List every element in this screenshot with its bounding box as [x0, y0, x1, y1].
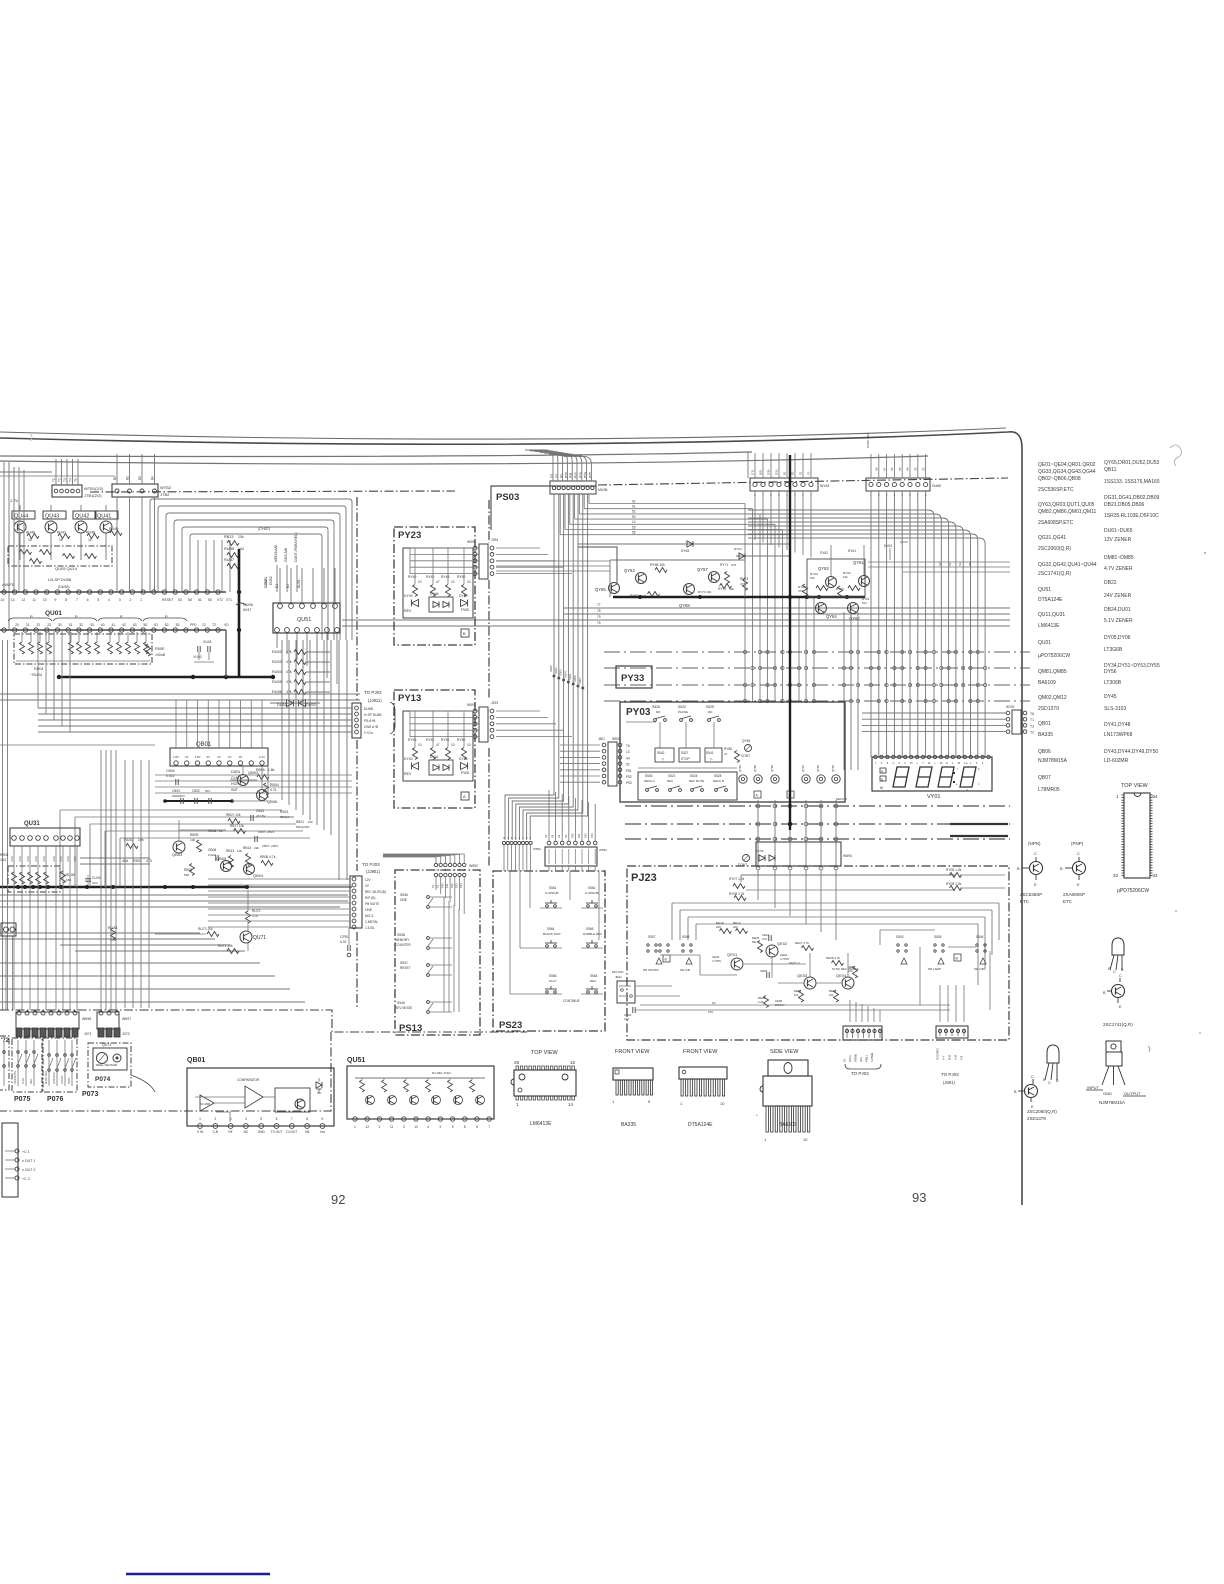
svg-text:684: 684 [66, 878, 71, 882]
wire inner loop verticals [281, 640, 283, 800]
svg-text:DY46: DY46 [430, 592, 439, 596]
svg-text:10k: 10k [829, 993, 834, 997]
wire leads to JJ901 [208, 878, 350, 880]
svg-text:11: 11 [390, 1125, 394, 1129]
svg-text:RU56: RU56 [272, 690, 282, 694]
transistor QE04 [842, 977, 854, 989]
svg-text:PY03: PY03 [626, 707, 651, 718]
svg-text:RUB7: RUB7 [224, 558, 234, 562]
transistor QY62 [848, 603, 859, 614]
capacitor CU06 [236, 603, 246, 605]
svg-text:REV: REV [404, 609, 412, 613]
svg-text:S1: S1 [431, 884, 435, 888]
svg-text:104: 104 [0, 858, 6, 862]
transistor QY65 [609, 583, 620, 594]
svg-text:2.1V: 2.1V [259, 755, 265, 759]
board outline PY23 [394, 527, 475, 645]
svg-text:QB01: QB01 [187, 1057, 205, 1064]
wire QU51 top leads [279, 568, 281, 603]
svg-text:T1: T1 [52, 478, 56, 482]
svg-text:W501: W501 [612, 737, 621, 741]
board label PY33 [616, 666, 652, 688]
svg-text:W594: W594 [843, 854, 852, 858]
bus heavy segments right [950, 823, 1008, 825]
svg-text:C: C [1034, 851, 1037, 856]
svg-text:31: 31 [69, 623, 73, 627]
blue mark line [126, 1573, 270, 1576]
svg-text:S564: S564 [590, 974, 598, 978]
wire loop rectangles [150, 499, 352, 640]
svg-text:15: 15 [570, 1060, 576, 1065]
svg-text:W593: W593 [599, 848, 607, 852]
marker B3 box [663, 955, 670, 962]
svg-text:C802: C802 [192, 789, 200, 793]
svg-text:CONT (PARA REC): CONT (PARA REC) [294, 532, 298, 562]
svg-text:RY70 10k: RY70 10k [698, 590, 712, 594]
svg-text:W592: W592 [533, 847, 541, 851]
wire PS03-board left dash outline [488, 500, 490, 543]
svg-text:T5: T5 [74, 478, 78, 482]
svg-text:RESET: RESET [400, 966, 411, 970]
diode DY50 [461, 600, 468, 607]
wire bundle V3 WU65 drops [870, 491, 872, 757]
wire PJ23 bottom rails [640, 1004, 950, 1006]
svg-text:W594: W594 [467, 540, 476, 544]
svg-text:H-SPDUB: H-SPDUB [545, 891, 559, 895]
svg-text:560(1/2W): 560(1/2W) [296, 825, 310, 829]
svg-text:40: 40 [101, 623, 105, 627]
svg-text:47k: 47k [286, 670, 292, 674]
svg-text:S505: S505 [934, 935, 942, 939]
resistor RY07 [741, 874, 955, 876]
svg-text:RU42: RU42 [124, 838, 134, 842]
wire WS92/WS93 into PS23 [503, 845, 505, 871]
svg-text:DB22: DB22 [1104, 580, 1117, 586]
svg-text:CE08: CE08 [775, 999, 782, 1003]
wire bottom connector drops [849, 1000, 851, 1022]
svg-text:x OUT 1: x OUT 1 [22, 1159, 35, 1163]
transistor QB06 [257, 790, 268, 801]
svg-text:100uB: 100uB [155, 653, 166, 657]
svg-text:77: 77 [597, 603, 601, 607]
svg-text:QY52: QY52 [801, 765, 805, 772]
package 2SC2060 TO-92 [1047, 1045, 1059, 1063]
svg-text:78: 78 [597, 609, 601, 613]
svg-text:10: 10 [414, 1125, 418, 1129]
svg-text:S306: S306 [573, 675, 577, 682]
svg-text:2SA608SP,ETC: 2SA608SP,ETC [1038, 520, 1074, 526]
svg-text:0V: 0V [206, 755, 210, 759]
wire thick vertical bus x790 [789, 455, 791, 830]
svg-text:QY64: QY64 [826, 614, 837, 619]
svg-text:MO-S: MO-S [365, 914, 373, 918]
diode DY44 [461, 763, 468, 770]
svg-text:BA6109: BA6109 [779, 1122, 797, 1128]
svg-text:E: E [1034, 882, 1037, 887]
svg-text:R503: R503 [133, 859, 142, 863]
svg-text:12: 12 [365, 1125, 369, 1129]
svg-text:V IN: V IN [197, 1130, 204, 1134]
svg-text:1: 1 [140, 598, 142, 602]
svg-text:DY49: DY49 [404, 594, 413, 598]
svg-text:1.5-B1: 1.5-B1 [365, 926, 375, 930]
svg-text:50: 50 [208, 598, 212, 602]
svg-text:NJM78M15A: NJM78M15A [1099, 1100, 1125, 1105]
svg-text:STOP: STOP [681, 757, 690, 761]
svg-text:TOP VIEW: TOP VIEW [531, 1050, 559, 1056]
svg-text:QY65,DR01,DU52,DU53: QY65,DR01,DU52,DU53 [1104, 460, 1160, 466]
svg-text:PLAY: PLAY [22, 1077, 25, 1084]
svg-text:SYNC REC ON/OFF: SYNC REC ON/OFF [832, 967, 859, 971]
svg-text:REV: REV [404, 772, 412, 776]
svg-text:COUNTER: COUNTER [395, 943, 411, 947]
node PY33 junctions [743, 650, 746, 653]
svg-text:DM81~DM85: DM81~DM85 [1104, 555, 1134, 561]
svg-text:S3: S3 [557, 834, 561, 838]
svg-text:S527: S527 [681, 751, 689, 755]
svg-text:S525: S525 [706, 705, 714, 709]
wire PS13 right bundle [443, 897, 445, 1012]
svg-text:J501: J501 [598, 737, 605, 741]
svg-text:QM82,QM86,QM01,QM11: QM82,QM86,QM01,QM11 [1038, 509, 1096, 515]
svg-text:47: 47 [724, 752, 728, 756]
svg-text:YU02: YU02 [193, 655, 202, 659]
transistor QB05 [221, 861, 232, 872]
svg-text:RU55: RU55 [272, 680, 282, 684]
connector WTB1/JTB1 [52, 485, 82, 497]
svg-text:QU01: QU01 [45, 610, 62, 617]
svg-text:µPD75206CW: µPD75206CW [1117, 888, 1149, 894]
svg-text:RB09: RB09 [190, 833, 198, 837]
svg-text:47k: 47k [286, 650, 292, 654]
transistor QU71 [240, 931, 252, 943]
svg-text:93: 93 [912, 1190, 926, 1205]
svg-text:QB03: QB03 [172, 852, 183, 857]
svg-text:QY64: QY64 [900, 540, 908, 544]
svg-text:FWD: FWD [461, 608, 470, 612]
svg-text:MIX MIC: MIX MIC [612, 970, 624, 974]
svg-text:10: 10 [451, 580, 455, 584]
connector WU98 [550, 481, 596, 494]
svg-text:C+Ou: C+Ou [364, 731, 373, 735]
svg-text:47k: 47k [286, 690, 292, 694]
transistor QY57 [709, 572, 720, 583]
svg-text:P074: P074 [95, 1076, 111, 1083]
svg-text:4.2V: 4.2V [42, 856, 46, 862]
svg-text:P22: P22 [450, 883, 454, 888]
svg-text:QB07: QB07 [1038, 775, 1051, 781]
transistor QB03 [173, 841, 185, 853]
capacitor CU04 [85, 878, 91, 880]
svg-text:QY61: QY61 [853, 560, 864, 565]
artifact pencil mark [1170, 445, 1182, 466]
board outline PY13 [394, 690, 475, 808]
svg-text:J071: J071 [84, 1032, 92, 1036]
resistor RY10 right [950, 886, 962, 891]
svg-text:T3: T3 [63, 478, 67, 482]
svg-text:QB06: QB06 [1038, 749, 1051, 755]
switch S541 [705, 748, 722, 762]
svg-text:4.2V: 4.2V [10, 856, 14, 862]
svg-text:TO PJ03: TO PJ03 [941, 1072, 959, 1077]
svg-text:(T1): (T1) [751, 470, 755, 475]
svg-text:WTB2: WTB2 [160, 485, 172, 490]
wire long risers x339-352 [338, 640, 340, 880]
svg-text:CB06: CB06 [208, 848, 216, 852]
svg-text:42: 42 [122, 623, 126, 627]
svg-text:R: R [881, 770, 883, 774]
svg-text:SYNC REC: SYNC REC [866, 432, 870, 448]
svg-text:PP0: PP0 [190, 623, 197, 627]
svg-text:6: 6 [87, 598, 89, 602]
svg-text:AF AMP: AF AMP [200, 1102, 210, 1106]
svg-text:56: 56 [632, 531, 636, 535]
wire center vertical bundle [505, 494, 554, 840]
svg-text:RB06: RB06 [256, 768, 265, 772]
svg-text:RB17 10k: RB17 10k [230, 824, 244, 828]
svg-text:9: 9 [440, 1125, 442, 1129]
svg-text:1SR35,RL103E,D5F10C: 1SR35,RL103E,D5F10C [1104, 513, 1159, 519]
svg-text:43: 43 [133, 623, 137, 627]
svg-text:S506: S506 [976, 935, 984, 939]
svg-text:LD-602MR: LD-602MR [1104, 758, 1129, 764]
svg-text:DY64: DY64 [734, 547, 742, 551]
resistor RY09 right [950, 873, 962, 878]
svg-text:DY45: DY45 [1104, 694, 1117, 700]
svg-text:INPUT: INPUT [1087, 1085, 1100, 1090]
resistor RU48 [87, 534, 99, 539]
svg-text:3: 3 [403, 1125, 405, 1129]
svg-text:XU01: XU01 [203, 640, 212, 644]
svg-text:S-PWM: S-PWM [870, 1052, 874, 1062]
svg-text:H-SPDUB: H-SPDUB [585, 891, 599, 895]
svg-text:QB02~QB06,QB08: QB02~QB06,QB08 [1038, 476, 1081, 482]
svg-text:2-METAL: 2-METAL [365, 920, 378, 924]
svg-text:GND: GND [258, 1130, 266, 1134]
svg-text:OSC/REC: OSC/REC [936, 1048, 940, 1060]
svg-text:QG32,QG42,QU41~QU44: QG32,QG42,QU41~QU44 [1038, 562, 1097, 568]
svg-text:INIT: INIT [231, 788, 239, 792]
wire PY23 internal [410, 547, 479, 549]
svg-text:LT306B: LT306B [1104, 680, 1122, 686]
transistor QU41 [95, 511, 118, 519]
svg-text:QB01: QB01 [196, 742, 212, 748]
svg-text:52: 52 [165, 623, 169, 627]
svg-text:S561: S561 [549, 886, 557, 890]
svg-text:+C 2: +C 2 [22, 1177, 30, 1181]
svg-text:RB08 4.7k: RB08 4.7k [260, 855, 276, 859]
svg-text:DY56: DY56 [756, 849, 764, 853]
svg-text:W597: W597 [122, 1017, 131, 1021]
svg-text:C: C [1048, 1081, 1051, 1085]
svg-text:DY43: DY43 [404, 757, 413, 761]
wire bundle V2b [843, 612, 845, 770]
svg-text:51: 51 [154, 623, 158, 627]
svg-text:DOLBY: DOLBY [61, 1075, 64, 1084]
svg-text:RB13: RB13 [226, 849, 234, 853]
svg-text:R1 RE1 4TkΩ: R1 RE1 4TkΩ [432, 1071, 451, 1075]
svg-text:(DU58): (DU58) [58, 585, 70, 589]
svg-text:NJM78M15A: NJM78M15A [1038, 758, 1068, 764]
svg-text:REV MODE: REV MODE [395, 1006, 412, 1010]
svg-text:REEL SENSOR: REEL SENSOR [96, 1063, 118, 1067]
svg-text:(JJ911): (JJ911) [368, 698, 382, 703]
transistor QY63 [636, 573, 647, 584]
svg-text:W592: W592 [469, 864, 478, 868]
svg-text:RU46: RU46 [26, 531, 35, 535]
connector TO PJ03 bottom-left [843, 1026, 882, 1040]
svg-text:S2: S2 [938, 562, 942, 566]
svg-text:(TK): (TK) [775, 469, 779, 475]
wire PY03 internals [638, 767, 737, 769]
svg-text:10: 10 [451, 743, 455, 747]
svg-text:Y-B: Y-B [960, 1056, 964, 1060]
svg-text:8: 8 [306, 1117, 308, 1121]
svg-text:CB04: CB04 [166, 769, 175, 773]
resistor RU47 [58, 534, 70, 539]
svg-text:(PNP): (PNP) [1071, 841, 1084, 846]
svg-text:NC: NC [244, 1130, 249, 1134]
svg-text:REC MUTE(B): REC MUTE(B) [365, 890, 386, 894]
diode DY46 box [429, 597, 453, 612]
svg-text:DT5A124E: DT5A124E [1038, 597, 1063, 603]
svg-text:XT1: XT1 [226, 598, 232, 602]
svg-text:T1: T1 [1030, 718, 1034, 722]
svg-text:x MUTE: x MUTE [2, 583, 15, 587]
svg-text:DY44: DY44 [459, 757, 468, 761]
svg-text:S537: S537 [400, 961, 408, 965]
svg-text:NF: NF [228, 1130, 232, 1134]
svg-text:PY33: PY33 [621, 673, 644, 684]
svg-text:2SD1379: 2SD1379 [1027, 1116, 1046, 1121]
svg-text:S2: S2 [564, 834, 568, 838]
svg-text:DU55: DU55 [264, 579, 268, 588]
svg-text:10k: 10k [237, 849, 242, 853]
sensor box P074 [88, 1043, 131, 1087]
svg-text:FRONT VIEW: FRONT VIEW [615, 1049, 650, 1055]
svg-text:QM02,QM12: QM02,QM12 [1038, 695, 1067, 701]
svg-text:10: 10 [467, 743, 471, 747]
svg-text:RU53: RU53 [272, 660, 282, 664]
svg-text:QE01: QE01 [727, 952, 738, 957]
wire QY box [610, 559, 745, 561]
svg-text:P20: P20 [440, 883, 444, 888]
svg-text:QB11: QB11 [1104, 467, 1117, 473]
svg-text:CB07 +/50V: CB07 +/50V [262, 844, 278, 848]
svg-text:S503: S503 [896, 935, 904, 939]
svg-text:PY13: PY13 [398, 693, 421, 704]
wire QB01 pkg internals [195, 1096, 245, 1098]
svg-text:S507: S507 [648, 935, 656, 939]
wire bus QU51-to-PY33 [563, 607, 1010, 609]
svg-text:12: 12 [202, 623, 206, 627]
svg-text:BA6109: BA6109 [1038, 680, 1056, 686]
svg-text:10k: 10k [308, 820, 313, 824]
crystal YU01 [197, 646, 199, 652]
svg-text:11: 11 [32, 598, 36, 602]
svg-text:RB21: RB21 [296, 820, 304, 824]
svg-text:S542: S542 [657, 751, 665, 755]
svg-text:REC MUTE: REC MUTE [689, 779, 704, 783]
svg-text:S4: S4 [626, 756, 630, 760]
resistor RU49 [110, 531, 122, 536]
svg-text:2SC2060(Q,R): 2SC2060(Q,R) [1038, 546, 1071, 552]
marker B box PY03 [787, 791, 794, 798]
svg-text:RB07 10k: RB07 10k [226, 813, 241, 817]
svg-text:DUBBLE REC: DUBBLE REC [583, 932, 603, 936]
svg-text:C.B: C.B [213, 1130, 218, 1134]
svg-text:TOP VIEW: TOP VIEW [1121, 783, 1149, 789]
svg-text:41: 41 [111, 623, 115, 627]
svg-text:2: 2 [379, 1125, 381, 1129]
svg-text:DY56: DY56 [1104, 669, 1117, 675]
svg-text:12: 12 [22, 598, 26, 602]
svg-text:QY50: QY50 [831, 765, 835, 772]
svg-text:5.1V ZENER: 5.1V ZENER [1104, 618, 1133, 624]
svg-text:S564: S564 [547, 927, 555, 931]
svg-text:DY43,DY44,DY49,DY50: DY43,DY44,DY49,DY50 [1104, 749, 1158, 755]
svg-text:P24: P24 [459, 883, 463, 888]
svg-text:S4: S4 [906, 467, 910, 471]
svg-text:1.8k: 1.8k [268, 768, 275, 772]
svg-text:FRONT VIEW: FRONT VIEW [683, 1049, 718, 1055]
svg-text:4.2V: 4.2V [52, 856, 56, 862]
wire QY drops to PY03 [798, 598, 800, 702]
svg-text:OUTPUT: OUTPUT [1124, 1091, 1141, 1096]
wire WY52 leads [862, 712, 1006, 714]
svg-text:S1: S1 [948, 562, 952, 566]
svg-text:E: E [1077, 882, 1080, 887]
svg-text:CU04: CU04 [92, 876, 101, 880]
svg-text:S508: S508 [682, 935, 690, 939]
wire right switch feeds [880, 929, 935, 931]
svg-text:RE08 4.7k: RE08 4.7k [826, 956, 841, 960]
svg-text:6: 6 [276, 1117, 278, 1121]
connector PS13 top pins [434, 873, 437, 876]
wire PY13 to WS93 links [496, 789, 549, 791]
wire PJ23 nested loops [672, 902, 999, 904]
svg-text:OE C/B: OE C/B [974, 967, 984, 971]
svg-text:S5: S5 [968, 562, 972, 566]
wire bus left lower field [0, 693, 360, 695]
svg-text:4: 4 [245, 1117, 247, 1121]
svg-text:P23: P23 [455, 883, 459, 888]
svg-text:12V ZENER: 12V ZENER [1104, 537, 1132, 543]
svg-text:DATA: DATA [231, 770, 241, 774]
svg-text:QG31,QG41: QG31,QG41 [1038, 535, 1066, 541]
svg-text:(B1): (B1) [759, 470, 763, 475]
svg-text:S304: S304 [563, 671, 567, 678]
wire QU31 pin drops [13, 846, 15, 1010]
svg-text:92: 92 [632, 499, 636, 503]
svg-text:QM81,QM85: QM81,QM85 [1038, 669, 1067, 675]
wire leads to JJ911 [38, 707, 352, 709]
board outline PJ23 [627, 866, 1009, 1040]
svg-text:0047: 0047 [243, 608, 251, 612]
wire QY65 riser [578, 547, 617, 584]
svg-text:58: 58 [188, 598, 192, 602]
svg-text:S541: S541 [706, 751, 714, 755]
svg-text:RY67: RY67 [630, 594, 638, 598]
svg-text:6: 6 [476, 1125, 478, 1129]
svg-text:22k: 22k [254, 846, 259, 850]
svg-text:53: 53 [178, 598, 182, 602]
svg-text:P22: P22 [584, 833, 588, 838]
transistor QE03 [804, 977, 816, 989]
svg-text:TAPE: TAPE [68, 1077, 71, 1084]
svg-text:DECK B: DECK B [713, 779, 724, 783]
svg-text:2: 2 [129, 598, 131, 602]
